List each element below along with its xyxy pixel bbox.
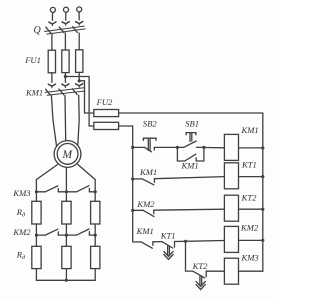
wire rotor star bottom	[36, 269, 95, 281]
wire pole3 Q to FU1	[78, 33, 80, 50]
wire rotor left	[36, 165, 57, 202]
switch Q pole 1 arrow	[49, 22, 56, 26]
node star point	[65, 279, 68, 282]
resistor Rd row2 branch2	[62, 246, 71, 268]
terminal L3	[77, 7, 82, 20]
wire FU2 bottom to left rail	[119, 126, 133, 241]
node rung1 left rail	[131, 146, 134, 149]
node KM2 branch1	[35, 234, 38, 237]
wire branch2 between resistors	[65, 224, 67, 246]
wire pole2 FU1 to KM1	[64, 73, 66, 83]
switch Q blade pole 3	[73, 27, 78, 33]
contact KM1 rung2	[133, 179, 155, 185]
fuse FU2 top	[94, 110, 119, 117]
wire pole1 Q to FU1	[51, 33, 53, 50]
fuse FU1 pole 3	[76, 50, 83, 73]
node tap phase2 to FU2	[64, 75, 67, 78]
contactor KM1 linkage bar lower	[47, 91, 85, 95]
wire coil KT1 to bus	[239, 176, 263, 178]
node rung2 left rail	[131, 177, 134, 180]
wire coil KM1 to bus	[239, 147, 263, 149]
wire KM1 to KT1 contact	[153, 241, 162, 243]
contactor KM1 pole 1 arrow	[48, 84, 55, 88]
contactor KM1 blade pole 2	[59, 89, 64, 95]
contactor KM1 pole 3 arrow	[76, 84, 83, 88]
wire parallel branch right	[203, 148, 205, 162]
svg-text:KM1: KM1	[241, 125, 259, 135]
fuse FU1 pole 2	[62, 50, 69, 73]
contact KM3 bridge 1-2	[36, 186, 66, 192]
wire branch2 to star	[65, 269, 67, 281]
wire pole1 FU1 to KM1	[51, 73, 53, 83]
wire rung3 to coil	[154, 209, 225, 210]
delay symbol KT1	[164, 246, 173, 259]
wire SB2 to SB1	[154, 146, 177, 148]
contact KT1 time-delayed rung4	[162, 242, 175, 249]
wire rung4 to coil	[175, 241, 225, 242]
switch Q pole 3 arrow	[76, 22, 83, 26]
wire branch1 between resistors	[35, 224, 37, 246]
wire rung5 to coil	[206, 270, 224, 272]
wire tap phase2 to FU2 bottom fuse	[65, 77, 93, 127]
resistor Rd row2 branch1	[32, 246, 41, 268]
node KM3 branch3	[94, 190, 97, 193]
svg-text:KM1: KM1	[25, 87, 43, 97]
resistor Rd row2 branch3	[91, 246, 100, 268]
wire coil KT2 to bus	[239, 208, 263, 210]
node rung2 right bus	[261, 175, 264, 178]
terminal L1	[50, 7, 55, 20]
fuse FU1 pole 1	[48, 50, 55, 73]
wire coil KM3 to bus	[239, 270, 263, 272]
wire rung1 to coil	[204, 147, 225, 149]
coil KM3	[224, 258, 238, 284]
node rung4 branch	[184, 240, 187, 243]
node KM2 branch2	[65, 234, 68, 237]
svg-text:KM3: KM3	[12, 188, 30, 198]
svg-text:SB1: SB1	[185, 118, 199, 128]
motor M inner circle	[57, 144, 78, 165]
coil KT1	[224, 163, 238, 189]
wire rung1 to SB2	[133, 146, 145, 148]
switch Q pole 2 arrow	[62, 22, 69, 26]
contactor KM1 linkage bar upper	[45, 88, 84, 93]
svg-text:Q: Q	[34, 25, 42, 36]
coil KT2	[224, 195, 238, 221]
node KM2 branch3	[94, 234, 97, 237]
contact KM2 rung3	[133, 210, 154, 216]
svg-text:Rд: Rд	[16, 249, 25, 261]
svg-text:M: M	[62, 149, 74, 161]
svg-text:SB2: SB2	[143, 118, 158, 128]
svg-text:KM1: KM1	[136, 226, 154, 236]
contactor KM1 blade pole 1	[46, 89, 51, 95]
node rung3 left rail	[131, 209, 134, 212]
svg-text:Rд: Rд	[16, 207, 25, 219]
svg-text:KT1: KT1	[160, 231, 176, 241]
svg-text:KM2: KM2	[136, 199, 155, 209]
wire tap phase3 to FU2 top fuse	[79, 81, 94, 113]
contact KM2 bridge 2-3	[66, 229, 95, 235]
contact KM1 aux (parallel with SB1)	[177, 154, 204, 161]
wire rotor right	[78, 164, 95, 201]
resistor Rd row1 branch3	[91, 201, 100, 224]
wire parallel branch left	[176, 147, 178, 161]
fuse FU2 bottom	[94, 122, 119, 129]
wire top bus to right rail	[119, 113, 263, 271]
motor M outer circle	[54, 141, 81, 168]
wire SB1 to node	[196, 146, 204, 148]
contact KM1 rung4	[133, 242, 153, 248]
wire stator phase 3 to motor	[78, 95, 79, 145]
wire stator phase 1 to motor	[51, 96, 56, 146]
contactor KM1 pole 2 arrow	[62, 84, 69, 88]
resistor Rd row1 branch2	[62, 201, 71, 224]
delay symbol KT2	[196, 276, 205, 289]
svg-text:KM1: KM1	[139, 167, 157, 177]
switch Q blade pole 1	[46, 27, 51, 33]
svg-text:KT2: KT2	[192, 261, 209, 271]
wire pole3 FU1 to KM1	[78, 72, 80, 82]
wire rotor middle	[65, 167, 67, 201]
switch Q linkage bar lower	[47, 29, 85, 34]
wire branch3 between resistors	[94, 224, 96, 246]
contactor KM1 blade pole 3	[72, 89, 77, 95]
pushbutton SB1	[184, 133, 196, 148]
svg-text:KM3: KM3	[241, 252, 259, 262]
switch Q blade pole 2	[59, 27, 64, 33]
pushbutton SB2	[143, 138, 156, 152]
switch Q linkage bar upper	[45, 26, 85, 31]
wire coil KM2 to bus	[239, 239, 263, 241]
svg-text:KM1: KM1	[181, 160, 199, 170]
resistor Rd row1 branch1	[32, 201, 41, 224]
node rung4 right bus	[261, 239, 264, 242]
wire to SB1 gap	[177, 146, 184, 148]
node SB1 left	[176, 146, 179, 149]
svg-text:KM2: KM2	[240, 223, 259, 233]
wire rung2 to coil	[154, 177, 224, 179]
node SB1 right	[202, 146, 205, 149]
coil KM2	[224, 226, 238, 252]
wire stator phase 2 to motor	[64, 95, 67, 140]
contact KM2 bridge 1-2	[36, 229, 66, 235]
node tap phase3 to FU2	[78, 79, 81, 82]
svg-text:KT2: KT2	[241, 192, 258, 202]
node KM3 branch2	[65, 190, 68, 193]
node KM3 branch1	[35, 190, 38, 193]
node rung1 right bus	[261, 146, 264, 149]
contact KT2 time-delayed rung5	[193, 271, 206, 278]
coil KM1	[224, 134, 238, 160]
svg-text:FU2: FU2	[96, 97, 113, 107]
svg-text:KT1: KT1	[241, 160, 257, 170]
contact KM3 bridge 2-3	[66, 186, 95, 192]
wire rung5 drop	[186, 241, 193, 271]
svg-text:FU1: FU1	[24, 55, 41, 65]
terminal L2	[64, 7, 69, 20]
node rung3 right bus	[261, 208, 264, 211]
wire pole2 Q to FU1	[64, 33, 66, 50]
svg-text:KM2: KM2	[12, 227, 31, 237]
